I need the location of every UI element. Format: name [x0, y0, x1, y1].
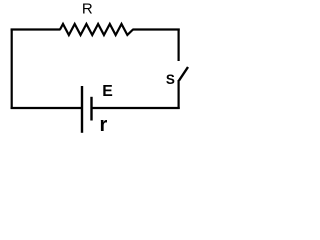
- battery cell short plate (negative terminal): [90, 97, 92, 121]
- wire bottom horizontal from bottom-right corner to battery short plate: [92, 107, 180, 109]
- svg-text:S: S: [166, 72, 175, 87]
- wire bottom horizontal from battery long plate to bottom-left corner: [11, 107, 82, 109]
- svg-text:R: R: [82, 1, 93, 18]
- svg-text:r: r: [100, 114, 108, 136]
- svg-text:E: E: [102, 83, 113, 100]
- battery cell long plate (positive terminal): [81, 86, 83, 133]
- switch S open blade (tip upper-right to pivot): [179, 67, 188, 81]
- wire right vertical lower (switch S pivot down to bottom-right corner): [178, 80, 180, 109]
- resistor R zigzag body: [60, 24, 133, 35]
- wire left vertical (top-left corner down to bottom-left corner): [11, 29, 13, 110]
- wire top horizontal from resistor R right lead to top-right corner: [133, 28, 180, 30]
- wire top horizontal from top-left corner to resistor R left lead: [11, 28, 61, 30]
- wire right vertical upper (top-right corner down to switch S top contact): [178, 29, 180, 62]
